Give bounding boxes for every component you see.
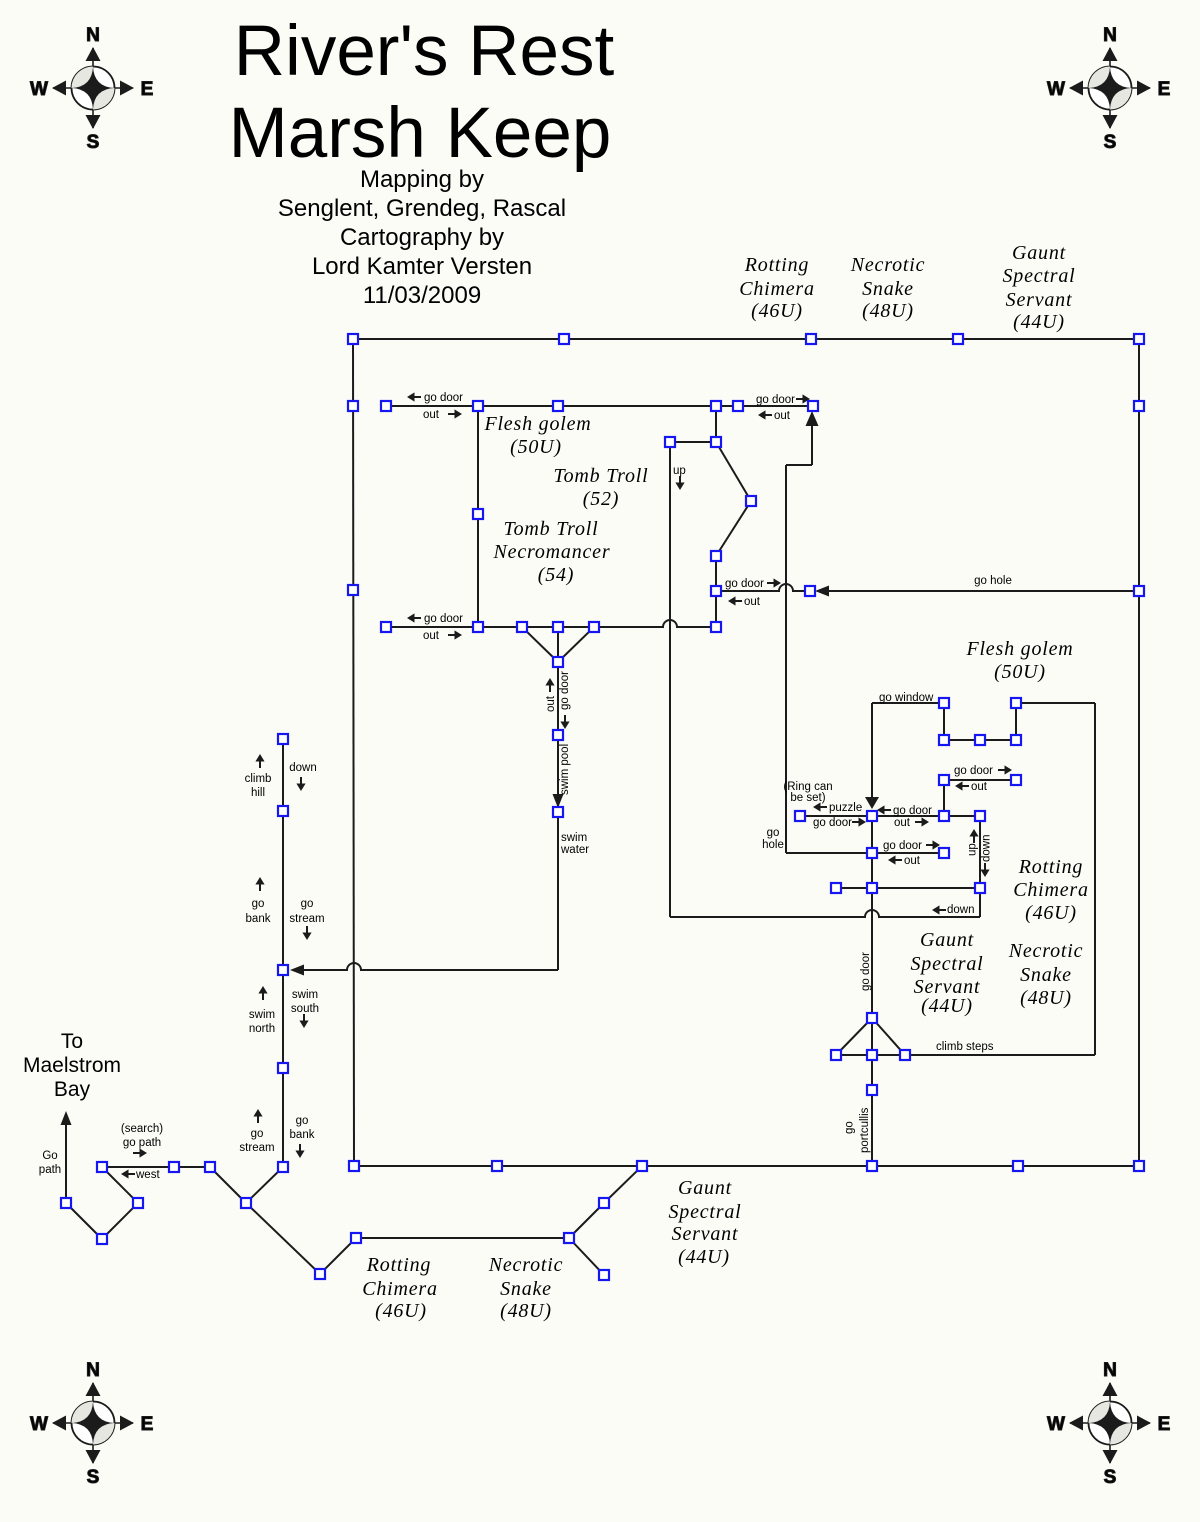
svg-text:go window: go window (879, 692, 934, 704)
wire swim water down (557, 812, 559, 970)
node path b (133, 1198, 143, 1208)
svg-text:go door: go door (954, 765, 993, 777)
node door room NW (381, 401, 391, 411)
svg-text:out: out (744, 596, 761, 608)
wire hall row south with hop (386, 620, 716, 627)
label Tomb Troll 52 (554, 465, 649, 510)
svg-text:E: E (1158, 1414, 1171, 1435)
svg-text:S: S (87, 132, 100, 153)
svg-text:bank: bank (246, 913, 271, 925)
svg-text:(46U): (46U) (375, 1300, 427, 1322)
svg-text:(54): (54) (538, 564, 575, 586)
arrow out west (row 853) (888, 855, 896, 864)
svg-text:(50U): (50U) (994, 661, 1046, 683)
svg-text:down: down (289, 762, 317, 774)
node keep low W (831, 883, 841, 893)
node steps mid (867, 1050, 877, 1060)
svg-text:Maelstrom: Maelstrom (23, 1054, 121, 1077)
node pool entry (553, 657, 563, 667)
svg-text:Gaunt: Gaunt (1012, 242, 1066, 264)
node ring room (795, 811, 805, 821)
node wall N1 (559, 334, 569, 344)
node keep door row E (939, 848, 949, 858)
wire swim west with hop (296, 963, 558, 970)
svg-text:Necrotic: Necrotic (1008, 940, 1084, 962)
svg-text:swim pool: swim pool (559, 744, 571, 795)
svg-text:portcullis: portcullis (859, 1107, 871, 1153)
wire ring room link (800, 815, 872, 817)
wire go portcullis (871, 1090, 873, 1166)
wire steps diagonal left (836, 1018, 872, 1055)
svg-text:go: go (296, 1115, 309, 1127)
node keep down bottom (975, 883, 985, 893)
arrow out east (row 406) (455, 409, 463, 418)
svg-text:bank: bank (290, 1129, 315, 1141)
svg-text:S: S (87, 1467, 100, 1488)
svg-text:W: W (1047, 1414, 1065, 1435)
node path west end (61, 1198, 71, 1208)
svg-text:out: out (774, 410, 791, 422)
svg-text:Chimera: Chimera (1013, 879, 1089, 901)
subtitle credits (278, 166, 566, 309)
label Flesh golem 50U (hall) (483, 413, 591, 458)
svg-text:Lord Kamter Versten: Lord Kamter Versten (312, 253, 532, 280)
arrow go stream up (lower) (253, 1109, 262, 1117)
wire keep row 853 (872, 852, 944, 854)
svg-text:To: To (61, 1030, 83, 1053)
svg-text:puzzle: puzzle (829, 802, 862, 814)
svg-text:Tomb Troll: Tomb Troll (504, 518, 599, 540)
svg-text:out: out (545, 695, 557, 712)
svg-text:out: out (894, 817, 911, 829)
node zig bottom (711, 551, 721, 561)
node NE corner (1134, 334, 1144, 344)
wire outer wall bottom (354, 1165, 1139, 1167)
arrow go door east (row 780) (1005, 765, 1013, 774)
wire outer wall left (353, 339, 354, 1166)
wire keep door row 780 (944, 779, 1016, 781)
node keep up top (975, 811, 985, 821)
node marsh a (315, 1269, 325, 1279)
wire stream bank segment (282, 811, 284, 970)
svg-text:path: path (39, 1164, 61, 1176)
svg-text:Marsh Keep: Marsh Keep (229, 94, 612, 173)
wire steps diagonal right (872, 1018, 905, 1055)
svg-text:(50U): (50U) (510, 436, 562, 458)
wire keep tower row (944, 739, 1016, 741)
svg-text:Snake: Snake (862, 278, 914, 300)
svg-text:Cartography by: Cartography by (340, 224, 504, 251)
svg-text:climb: climb (245, 773, 272, 785)
svg-text:Chimera: Chimera (362, 1278, 438, 1300)
svg-text:go: go (251, 1128, 264, 1140)
compass top-right (1047, 25, 1170, 153)
wire keep row 816 b (944, 815, 980, 817)
svg-text:(44U): (44U) (1013, 311, 1065, 333)
wire marsh diagonal i (604, 1166, 642, 1203)
svg-text:water: water (560, 844, 589, 856)
wire marsh diagonal h (569, 1203, 604, 1238)
svg-text:(44U): (44U) (921, 995, 973, 1017)
wire keep row 888 (836, 887, 980, 889)
svg-text:out: out (904, 855, 921, 867)
arrow out up (pool) (545, 678, 554, 686)
label Gaunt Spectral Servant 44U (keep) (910, 929, 983, 1017)
node upper door room (808, 401, 818, 411)
svg-text:go door: go door (883, 840, 922, 852)
node path c (97, 1234, 107, 1244)
node keep door E (1011, 775, 1021, 785)
arrow west (121, 1169, 129, 1178)
node tower NW (939, 698, 949, 708)
svg-text:River's Rest: River's Rest (234, 12, 615, 91)
svg-text:out: out (423, 630, 440, 642)
svg-text:Rotting: Rotting (1018, 856, 1084, 878)
node keep low mid (867, 883, 877, 893)
wire triangle left diagonal (522, 627, 558, 662)
node NW corner (348, 334, 358, 344)
svg-text:(48U): (48U) (862, 300, 914, 322)
node SW corner (349, 1161, 359, 1171)
svg-text:Rotting: Rotting (366, 1254, 432, 1276)
wire steps mid (871, 1018, 873, 1055)
svg-text:go path: go path (123, 1137, 161, 1149)
svg-text:stream: stream (239, 1142, 274, 1154)
arrow go door right (ring room) (859, 817, 867, 826)
arrow out east (row 627) (455, 630, 463, 639)
svg-text:Snake: Snake (500, 1278, 552, 1300)
node up room (665, 437, 675, 447)
node wall E2 go hole (1134, 586, 1144, 596)
svg-text:go hole: go hole (974, 575, 1012, 587)
arrow out west (row 591) (728, 596, 736, 605)
arrow go door west (row 406) (407, 392, 415, 401)
svg-text:go door: go door (893, 805, 932, 817)
svg-text:Spectral: Spectral (1002, 265, 1075, 287)
arrow go bank up (255, 877, 264, 885)
svg-text:Gaunt: Gaunt (678, 1177, 732, 1199)
node hill base (278, 806, 288, 816)
wire marsh row (356, 1237, 569, 1239)
wire triangle right diagonal (558, 627, 594, 662)
node stream junction (278, 965, 288, 975)
svg-text:W: W (30, 79, 48, 100)
svg-text:go door: go door (725, 578, 764, 590)
label Necrotic Snake 48U (south) (488, 1254, 564, 1322)
svg-text:(44U): (44U) (678, 1246, 730, 1268)
compass top-left (30, 25, 153, 153)
wire climb steps east (905, 1054, 1095, 1056)
label Necrotic Snake 48U (top) (850, 254, 926, 322)
wire hall row north (386, 405, 813, 407)
wire keep tower east link (1016, 702, 1095, 704)
wire marsh diagonal f (246, 1203, 320, 1274)
svg-text:out: out (423, 409, 440, 421)
node wall S2 (637, 1161, 647, 1171)
node path a (97, 1162, 107, 1172)
wire go hole from east wall (828, 590, 1139, 592)
svg-text:go door: go door (860, 952, 872, 991)
svg-text:S: S (1104, 132, 1117, 153)
node marsh c (564, 1233, 574, 1243)
node keep mid (939, 811, 949, 821)
wire stub (715, 556, 717, 591)
svg-text:E: E (1158, 79, 1171, 100)
wire triangle mid (557, 627, 559, 662)
node hall S2 (553, 622, 563, 632)
svg-text:N: N (1103, 1360, 1117, 1381)
svg-text:go: go (301, 898, 314, 910)
label Tomb Troll Necromancer 54 (493, 518, 611, 586)
wire arrow L to upper door (786, 464, 812, 466)
wire tomb troll stub down (715, 406, 717, 442)
node door room E (711, 586, 721, 596)
node go hole room (805, 586, 815, 596)
node wall S4 (1013, 1161, 1023, 1171)
svg-text:W: W (30, 1414, 48, 1435)
wire pool stub (557, 662, 559, 735)
wire keep tower left stub (943, 703, 945, 740)
node zig mid (746, 496, 756, 506)
svg-text:go door: go door (813, 817, 852, 829)
node hall NE (711, 401, 721, 411)
node keep door row W (867, 848, 877, 858)
svg-text:out: out (971, 781, 988, 793)
svg-text:down: down (981, 835, 993, 863)
wire path diagonal e (246, 1167, 283, 1203)
svg-text:go door: go door (756, 394, 795, 406)
wire stub to row (715, 591, 717, 627)
wire path diagonal d (210, 1167, 246, 1203)
svg-text:go door: go door (559, 671, 571, 710)
wire swim pool segment (557, 735, 559, 807)
svg-text:Flesh golem: Flesh golem (483, 413, 591, 435)
svg-text:Bay: Bay (54, 1078, 91, 1101)
node hall SE (711, 622, 721, 632)
node wall W2 (348, 585, 358, 595)
arrow go door down (pool) (560, 722, 569, 730)
node tower SW (939, 735, 949, 745)
svg-text:Tomb Troll: Tomb Troll (554, 465, 649, 487)
node wall S1 (492, 1161, 502, 1171)
svg-text:11/03/2009: 11/03/2009 (363, 282, 481, 309)
svg-text:(search): (search) (121, 1123, 163, 1135)
arrow out east (row 816) (922, 817, 930, 826)
svg-text:Necrotic: Necrotic (850, 254, 926, 276)
wire stream lower segment (282, 1068, 284, 1167)
arrow puzzle west (813, 802, 821, 811)
arrow go door west (row 627) (407, 613, 415, 622)
svg-text:go: go (767, 827, 780, 839)
node wall W1 (348, 401, 358, 411)
node hill top (278, 734, 288, 744)
arrow go door east (row 406 right) (803, 394, 811, 403)
wire go window horiz (872, 702, 944, 704)
wire go window vertical (871, 703, 873, 797)
wire go path arrow (65, 1120, 67, 1197)
svg-text:(48U): (48U) (500, 1300, 552, 1322)
wire zig down-left (716, 501, 751, 556)
wire zig down-right (716, 442, 751, 501)
compass bottom-right (1047, 1360, 1170, 1488)
svg-text:hole: hole (762, 839, 784, 851)
wire outer wall right (1138, 339, 1140, 1166)
node hall N (553, 401, 563, 411)
label Necrotic Snake 48U (keep) (1008, 940, 1084, 1009)
node wall S3 portcullis (867, 1161, 877, 1171)
wire keep row 816 a (872, 815, 944, 817)
arrow up (keep) (969, 829, 978, 837)
svg-text:be set): be set) (790, 792, 825, 804)
node keep junction (867, 811, 877, 821)
wire stream swim segment (282, 970, 284, 1068)
svg-text:Chimera: Chimera (739, 278, 815, 300)
svg-text:Mapping by: Mapping by (360, 166, 484, 193)
svg-text:(52): (52) (583, 488, 620, 510)
svg-text:E: E (141, 1414, 154, 1435)
label Rotting Chimera 46U (top) (739, 254, 815, 322)
svg-text:up: up (673, 465, 686, 477)
node door room SW (381, 622, 391, 632)
node hall NW (473, 401, 483, 411)
svg-text:west: west (135, 1169, 160, 1181)
arrow swim south down (299, 1021, 308, 1029)
svg-text:Servant: Servant (672, 1223, 739, 1245)
node path e (205, 1162, 215, 1172)
wire west wall of flesh golem room (477, 406, 479, 627)
label Gaunt Spectral Servant 44U (south) (668, 1177, 741, 1268)
wire keep east vertical (1094, 703, 1096, 1055)
svg-text:go: go (844, 1121, 856, 1134)
svg-text:Spectral: Spectral (910, 953, 983, 975)
wire go hole vertical (785, 465, 787, 853)
arrow out west (row 780) (955, 781, 963, 790)
svg-text:go door: go door (424, 613, 463, 625)
node portcullis room (867, 1085, 877, 1095)
arrow go stream down (302, 933, 311, 941)
svg-text:up: up (967, 843, 979, 856)
node hall S3 (589, 622, 599, 632)
node zig top (711, 437, 721, 447)
node wall N2 (806, 334, 816, 344)
label Flesh golem 50U (keep) (965, 638, 1073, 683)
svg-text:(46U): (46U) (751, 300, 803, 322)
svg-text:Gaunt: Gaunt (920, 929, 974, 951)
node path f (241, 1198, 251, 1208)
wire path diagonal c (102, 1167, 138, 1203)
svg-text:swim: swim (561, 832, 587, 844)
svg-text:climb steps: climb steps (936, 1041, 994, 1053)
arrow climb hill up (255, 754, 264, 762)
node wall N3 (953, 334, 963, 344)
svg-text:south: south (291, 1003, 319, 1015)
wire keep mid vertical (871, 816, 873, 888)
label Rotting Chimera 46U (keep) (1013, 856, 1089, 924)
node path d (169, 1162, 179, 1172)
svg-text:north: north (249, 1023, 275, 1035)
arrow out west (row 406 right) (758, 410, 766, 419)
node marsh e (599, 1270, 609, 1280)
wire keep stub 780-816 (943, 780, 945, 816)
svg-text:Snake: Snake (1020, 964, 1072, 986)
svg-text:N: N (86, 25, 100, 46)
node tower S (975, 735, 985, 745)
svg-text:down: down (947, 904, 975, 916)
svg-text:go: go (252, 898, 265, 910)
svg-text:Senglent, Grendeg, Rascal: Senglent, Grendeg, Rascal (278, 195, 566, 222)
wire path west link (102, 1166, 174, 1168)
node hall W (473, 509, 483, 519)
wire path diagonal b (102, 1203, 138, 1239)
wire go hole to ring room (786, 852, 867, 854)
wire stream climb segment (282, 739, 284, 811)
node stream mouth (278, 1162, 288, 1172)
svg-text:N: N (86, 1360, 100, 1381)
svg-text:Rotting: Rotting (744, 254, 810, 276)
svg-text:N: N (1103, 25, 1117, 46)
label Gaunt Spectral Servant 44U (top) (1002, 242, 1075, 333)
wire tomb troll stub left (670, 441, 716, 443)
svg-text:S: S (1104, 1467, 1117, 1488)
node steps W (831, 1050, 841, 1060)
svg-text:Necromancer: Necromancer (493, 541, 611, 563)
wire go door east with hop (716, 584, 810, 591)
wire keep up/down vertical (979, 816, 981, 888)
wire path link (174, 1166, 210, 1168)
arrow go door west (row 816) (877, 805, 885, 814)
arrow down (keep) (980, 870, 989, 878)
node hall NE2 (733, 401, 743, 411)
arrow search go path right (140, 1148, 148, 1157)
svg-text:Spectral: Spectral (668, 1201, 741, 1223)
wire steps row (836, 1054, 905, 1056)
node hall S1 (517, 622, 527, 632)
arrow down west (corridor) (932, 905, 940, 914)
label Rotting Chimera 46U (south) (362, 1254, 438, 1322)
svg-text:E: E (141, 79, 154, 100)
wire keep tower right stub (1015, 703, 1017, 740)
svg-text:stream: stream (289, 913, 324, 925)
node marsh b (351, 1233, 361, 1243)
node stream mid (278, 1063, 288, 1073)
svg-text:(48U): (48U) (1020, 987, 1072, 1009)
svg-text:swim: swim (292, 989, 318, 1001)
wire down corridor with hop (670, 910, 980, 917)
wire go door south vertical (871, 888, 873, 1018)
wire portcullis stub (871, 1055, 873, 1090)
svg-text:Necrotic: Necrotic (488, 1254, 564, 1276)
node wall E1 (1134, 401, 1144, 411)
arrow down (hill) (296, 784, 305, 792)
arrow go door east (row 591) (774, 578, 782, 587)
arrow swim north up (258, 986, 267, 994)
svg-text:Servant: Servant (1006, 289, 1073, 311)
wire outer wall top (353, 338, 1139, 340)
node marsh d (599, 1198, 609, 1208)
svg-text:go door: go door (424, 392, 463, 404)
node swim water (553, 807, 563, 817)
node steps E (900, 1050, 910, 1060)
arrow up label (long vertical) (675, 483, 684, 491)
wire marsh diagonal j (569, 1238, 604, 1275)
node keep door W (939, 775, 949, 785)
wire long up/down vertical (669, 442, 671, 917)
svg-text:swim: swim (249, 1009, 275, 1021)
svg-text:Flesh golem: Flesh golem (965, 638, 1073, 660)
wire path diagonal a (66, 1203, 102, 1239)
svg-text:W: W (1047, 79, 1065, 100)
node tower SE (1011, 735, 1021, 745)
